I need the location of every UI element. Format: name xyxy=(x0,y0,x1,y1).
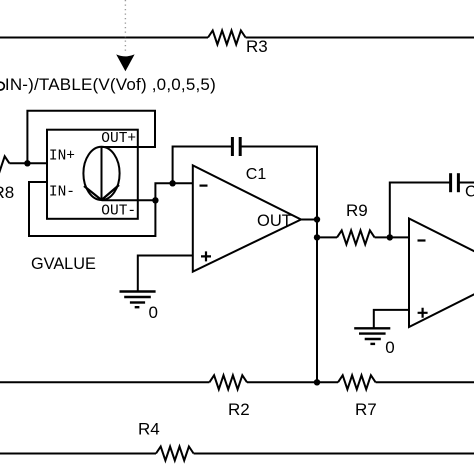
op-amp U1 xyxy=(193,165,301,271)
node bottom rail junction dot xyxy=(314,379,320,385)
svg-text:R4: R4 xyxy=(138,420,160,439)
op-amp U1 plus sign xyxy=(201,251,211,261)
ellipse of G source xyxy=(83,147,119,200)
wire dashed probe line xyxy=(124,0,126,52)
svg-text:IN+: IN+ xyxy=(49,149,75,165)
wire R9 to op-amp2 xyxy=(375,236,409,238)
wire OUT- node step to op-amp minus xyxy=(155,183,192,200)
wire bottom rail 1 middle xyxy=(247,381,338,383)
resistor R3 xyxy=(208,31,246,45)
op-amp U2 xyxy=(409,219,474,328)
wire feedback loop top (node A up over to OUT+) xyxy=(27,111,155,164)
wire node A to IN+ xyxy=(9,162,47,164)
wire feedback loop to C2 xyxy=(390,183,451,238)
svg-text:IN-: IN- xyxy=(49,185,75,201)
G source vertical line xyxy=(101,147,103,200)
wire op-amp1 output xyxy=(301,219,317,221)
GVALUE inner box xyxy=(47,130,138,219)
ground 1 xyxy=(120,292,156,308)
node output junction dot xyxy=(314,216,320,222)
wire bottom rail 2 left xyxy=(0,453,156,455)
probe arrow xyxy=(116,54,134,71)
svg-text:0: 0 xyxy=(149,303,158,322)
wire top rail right xyxy=(246,37,474,39)
wire IN- to bottom loop xyxy=(29,182,155,236)
node op-amp2 input junction dot xyxy=(387,234,393,240)
resistor R2 xyxy=(209,375,247,389)
svg-text:R8: R8 xyxy=(0,183,14,202)
wire OUT- pin to node xyxy=(102,199,156,201)
op-amp U2 plus sign xyxy=(418,308,428,318)
node feedback junction dot xyxy=(169,180,175,186)
svg-text:OUT: OUT xyxy=(257,212,292,230)
resistor R8 xyxy=(0,156,9,170)
capacitor C1 xyxy=(232,137,240,156)
wire bottom rail 1 left xyxy=(0,381,209,383)
ground 2 xyxy=(354,328,390,344)
svg-text:C2: C2 xyxy=(465,184,474,201)
node A junction dot xyxy=(24,160,30,166)
wire top rail left xyxy=(0,37,208,39)
G source arrow wings xyxy=(84,185,119,200)
wire C2 right stub xyxy=(458,182,474,184)
svg-text:0: 0 xyxy=(385,338,394,357)
resistor R4 xyxy=(156,447,194,461)
resistor R9 xyxy=(337,230,375,244)
wire feedback C1 right down to output xyxy=(240,147,317,220)
svg-text:R2: R2 xyxy=(228,400,250,419)
op-amp U1 minus sign xyxy=(200,185,208,187)
op-amp U2 minus sign xyxy=(418,239,426,241)
svg-text:C1: C1 xyxy=(246,166,267,183)
label expression (partial % circle at left edge) xyxy=(0,82,4,90)
svg-text:IN-)/TABLE(V(Vof) ,0,0,5,5): IN-)/TABLE(V(Vof) ,0,0,5,5) xyxy=(5,75,216,94)
svg-text:OUT-: OUT- xyxy=(101,204,136,220)
wire output to R9 xyxy=(317,236,337,238)
wire bottom rail 1 right xyxy=(376,381,474,383)
svg-text:R7: R7 xyxy=(355,400,377,419)
wire feedback C1 left xyxy=(173,147,233,184)
svg-text:R9: R9 xyxy=(346,201,368,220)
svg-text:R3: R3 xyxy=(246,37,268,56)
svg-text:GVALUE: GVALUE xyxy=(31,255,96,273)
node OUT- junction dot xyxy=(152,197,158,203)
svg-text:OUT+: OUT+ xyxy=(101,131,136,147)
resistor R7 xyxy=(338,375,376,389)
wire bottom rail 2 right xyxy=(194,453,474,455)
wire op-amp1 plus to ground xyxy=(138,256,193,292)
capacitor C2 xyxy=(451,173,459,192)
wire op-amp2 plus to ground xyxy=(374,310,409,328)
wire output vertical down to bottom rail xyxy=(316,147,318,383)
node R9 takeoff junction dot xyxy=(314,234,320,240)
